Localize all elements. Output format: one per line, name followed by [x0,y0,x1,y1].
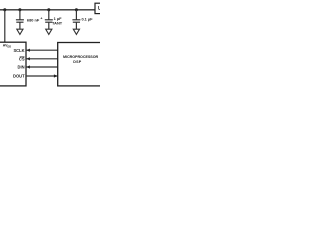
ADC box left (cropped) [0,42,26,86]
arrowhead into DIN pin [26,65,30,68]
regulator U1 box top right (cropped) [95,3,103,13]
microprocessor DSP box (cropped right) [58,43,113,86]
arrowhead into SCLK pin [26,49,30,52]
svg-text:0.1 µF: 0.1 µF [81,16,93,21]
svg-text:MICROPROCESSOR: MICROPROCESSOR [63,55,99,59]
capacitor C3 0.1 uF [72,10,80,29]
arrowhead into CS pin [26,57,30,60]
svg-text:DIN: DIN [18,65,25,70]
ground under C2 [46,29,52,34]
svg-text:TANT: TANT [52,20,63,25]
svg-text:680 nF: 680 nF [27,18,40,23]
wire DIN [26,66,58,68]
svg-text:+: + [40,16,42,20]
value label 1 uF TANT [52,16,63,25]
svg-text:SCLK: SCLK [13,48,24,53]
wire SCLK [26,49,58,51]
ground under C3 [73,29,79,34]
node junction dot at C2 [47,8,50,11]
node junction dot at C1 [18,8,21,11]
wire CS [26,58,58,60]
wire AVDD supply rail [0,9,95,11]
pin label CS with overline [19,57,25,62]
wire AVDD stub down to ADC [4,10,6,42]
svg-text:DD: DD [7,45,11,49]
pin label AVDD [3,44,11,49]
svg-text:DSP: DSP [73,60,82,64]
svg-text:DOUT: DOUT [13,74,25,79]
node junction dot at C3 [75,8,78,11]
arrowhead into DSP [54,74,58,77]
wire DOUT [26,75,57,77]
ground under C1 [17,29,23,34]
svg-text:CS: CS [19,57,25,62]
node junction dot at AVDD pin stub [3,8,6,11]
capacitor C1 680 nF [16,10,24,29]
svg-text:U: U [98,6,100,12]
capacitor C2 1 uF TANT [40,10,52,29]
